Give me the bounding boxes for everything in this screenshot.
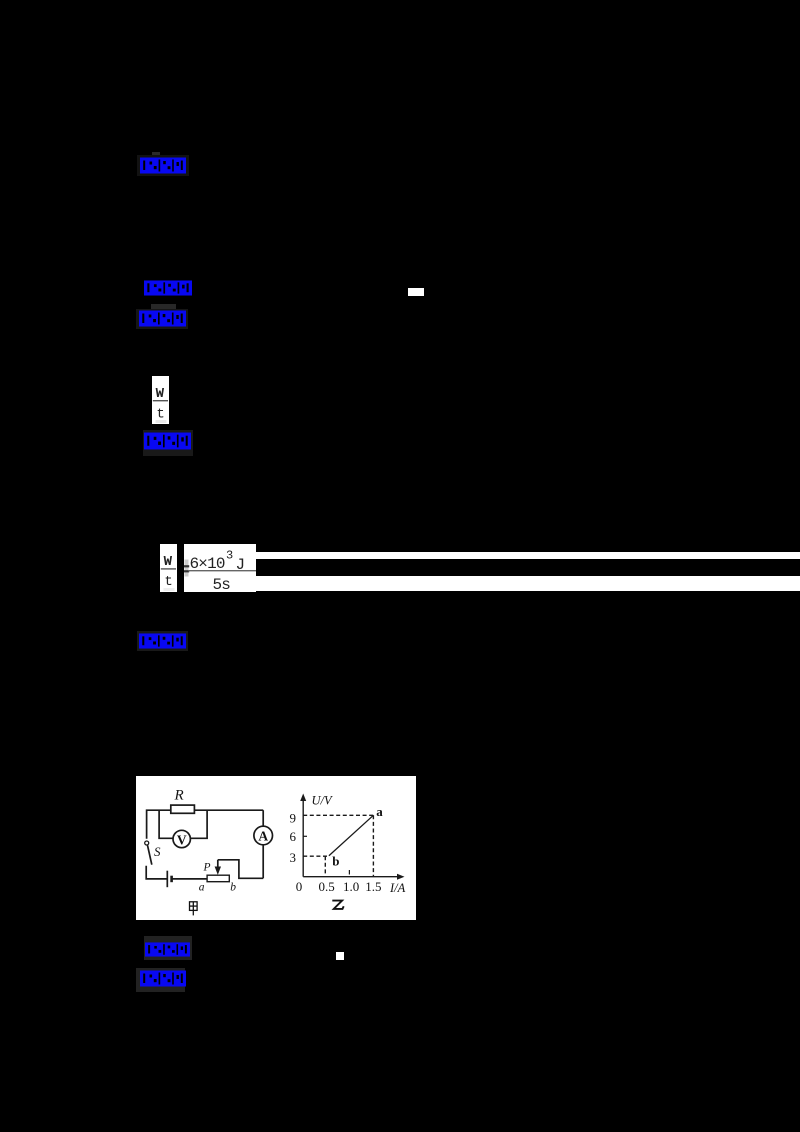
halo label 7 [136,968,185,992]
svg-text:U/V: U/V [311,793,332,807]
svg-text:A: A [258,828,268,843]
graph: y axis [303,798,399,876]
blue label 5 [139,633,186,649]
x axis arrow [396,873,403,879]
svg-text:P: P [202,861,210,873]
halo label 3 [136,309,188,329]
wire: voltmeter loop [159,810,173,838]
white dash blank (answer blank image) [408,288,424,296]
rheostat body [207,875,229,881]
svg-text:W: W [163,554,172,570]
blue label 4 [144,432,191,450]
halo label 4 [143,430,193,456]
svg-text:1.5: 1.5 [365,879,381,894]
blue label 6 [145,942,190,957]
svg-text:a: a [376,804,383,819]
svg-text:a: a [198,881,204,893]
resistor R [170,805,194,813]
wire: bottom left [146,865,167,878]
blue label 3 [139,310,186,327]
halo ghost above label 3 [151,304,176,311]
white band 2 (clipped equation strip) [256,576,800,592]
blue label 2 [144,280,192,296]
voltmeter V [173,830,190,847]
caption 甲 glyph [189,902,197,916]
circuit figure image (white) [136,776,416,920]
svg-text:t: t [164,574,172,590]
y tick mark 6 [303,835,307,837]
svg-text:3: 3 [289,850,296,865]
halo ghost label 1 [137,155,189,176]
halo ghost above label 1 [152,152,160,159]
blue label 1 (bracketed hanzi tag) [140,157,186,174]
wire: right branch [262,810,264,826]
svg-text:3: 3 [226,548,233,562]
svg-text:1.0: 1.0 [342,879,358,894]
svg-text:t: t [156,407,164,423]
wire: top loop [146,810,170,839]
formula image 1: fraction W/t [152,376,169,424]
y axis arrow [300,793,306,800]
svg-text:9: 9 [289,810,296,825]
white blank square [336,952,344,960]
svg-text:b: b [230,881,236,893]
U-I line b to a [328,815,372,855]
formula image 2b: = (6x10^3 J)/(5s) [184,544,257,592]
blue label 7 [140,970,186,987]
svg-text:V: V [176,832,186,847]
svg-text:W: W [155,386,164,402]
formula image 2a: fraction W/t [160,544,177,592]
ammeter A [253,826,272,845]
wire: slider jumper [217,860,262,878]
dashed guide to a [303,815,373,876]
svg-text:b: b [332,853,339,868]
svg-text:I/A: I/A [388,881,405,895]
halo label 6 [144,936,192,960]
rheostat slider P [216,860,218,867]
white band 1 (clipped equation strip) [256,552,800,560]
svg-text:0: 0 [295,879,302,894]
x tick mark 1.0 [348,870,350,874]
svg-text:R: R [173,787,183,803]
caption 乙 glyph [332,900,343,908]
battery cell [166,870,168,886]
halo label 5 [137,631,188,651]
svg-text:6: 6 [289,829,296,844]
svg-text:0.5: 0.5 [318,879,334,894]
svg-text:5s: 5s [212,576,230,592]
switch S [144,841,148,845]
wire: battery to rheostat [171,878,206,880]
svg-text:S: S [154,844,161,859]
